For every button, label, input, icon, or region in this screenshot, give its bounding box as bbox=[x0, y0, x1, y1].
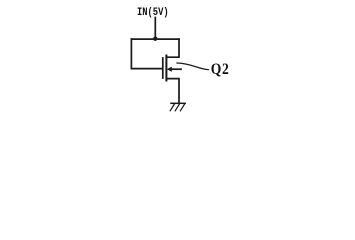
svg-text:IN(5V): IN(5V) bbox=[137, 6, 169, 18]
svg-text:Q2: Q2 bbox=[211, 61, 230, 78]
